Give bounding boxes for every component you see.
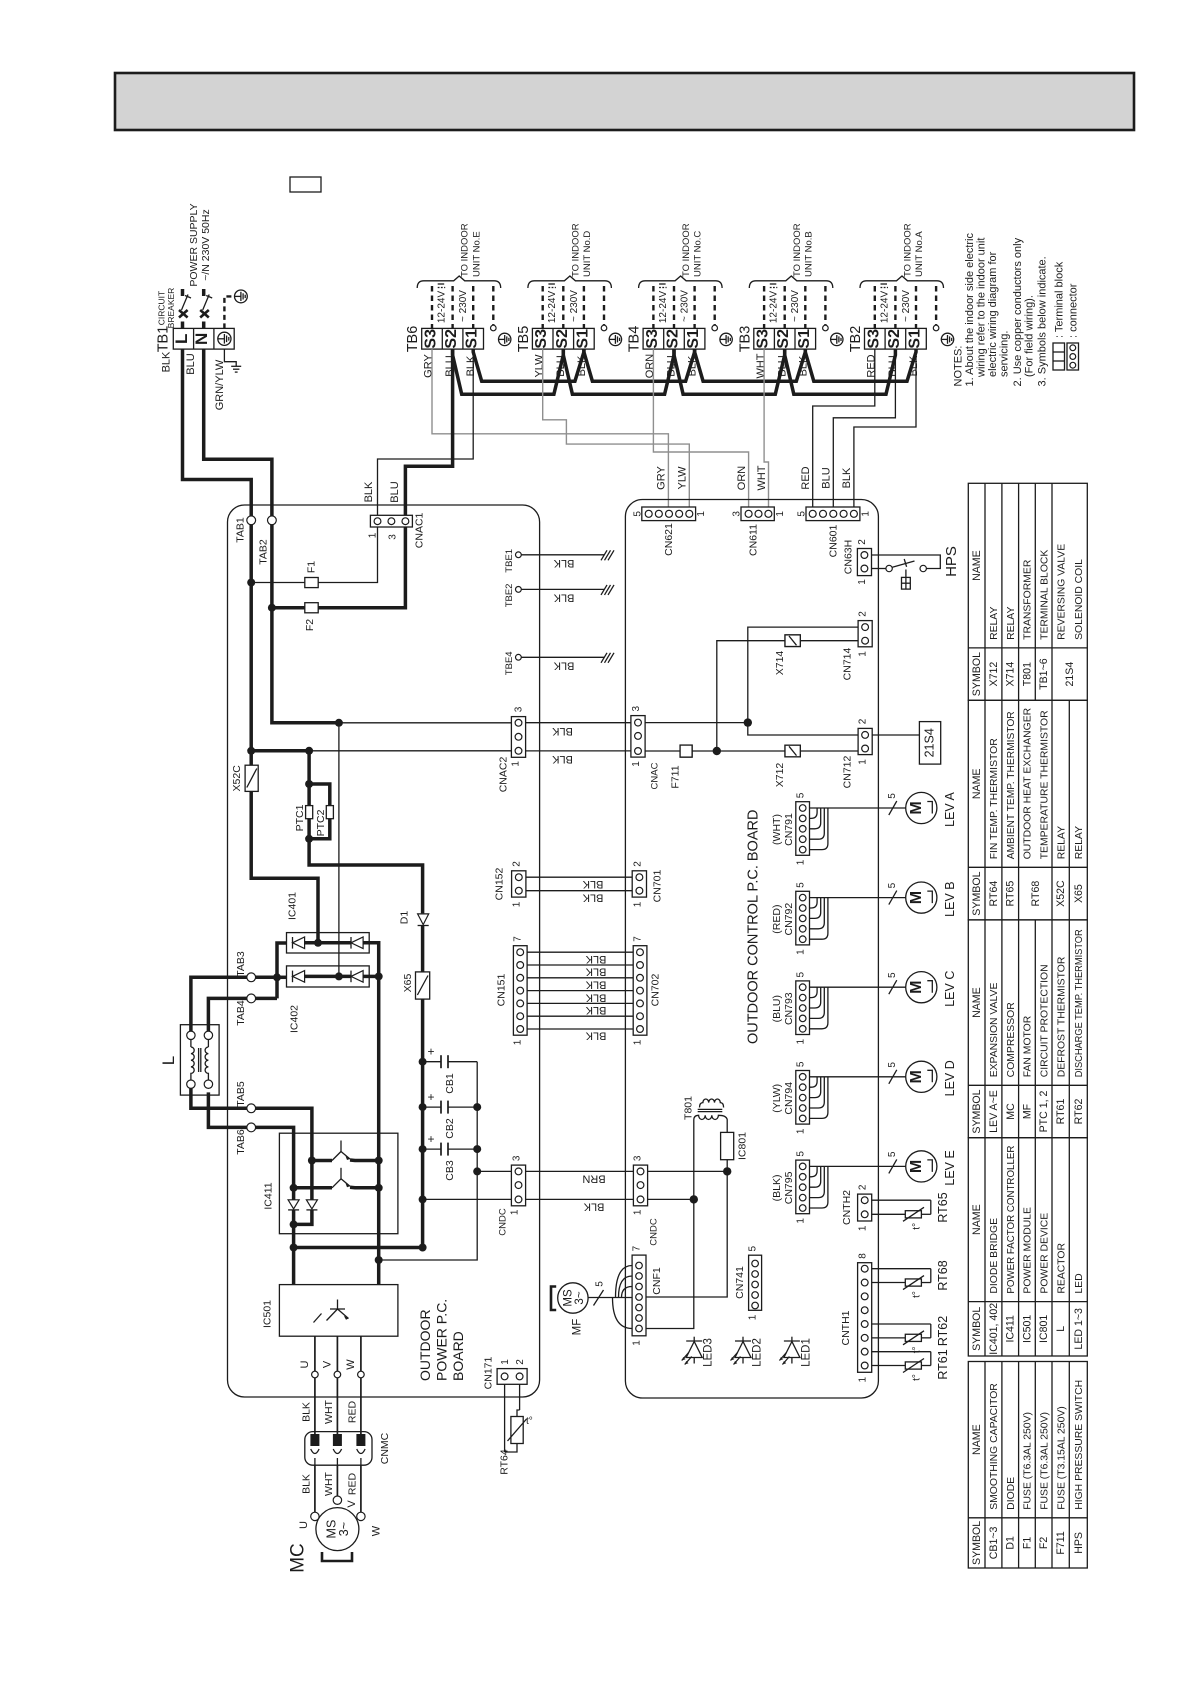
svg-text:~ 230V: ~ 230V — [901, 290, 912, 322]
circuit breaker L pole — [181, 289, 185, 328]
svg-text:BLU: BLU — [821, 467, 833, 488]
svg-text:servicing.: servicing. — [999, 331, 1011, 377]
svg-text:BLK: BLK — [585, 991, 606, 1003]
svg-text:NAME: NAME — [971, 1424, 983, 1455]
net CNAC pin1 / F711 / X712 — [645, 750, 680, 752]
svg-text:(YLW): (YLW) — [771, 1084, 783, 1113]
thermistor RT62 — [872, 1323, 931, 1325]
svg-text:BLK: BLK — [553, 659, 574, 671]
svg-text:NAME: NAME — [971, 987, 983, 1018]
svg-text:T801: T801 — [1021, 662, 1033, 686]
svg-text:CN714: CN714 — [842, 647, 854, 680]
table group 5 — [968, 1362, 1087, 1569]
svg-text:S1: S1 — [796, 329, 813, 349]
table group 4 — [968, 1138, 1087, 1356]
svg-text:1: 1 — [796, 859, 807, 865]
connector CN794 / motor LEV D — [796, 1071, 810, 1125]
svg-text:5: 5 — [887, 882, 898, 888]
svg-text:FUSE (T6.3AL 250V): FUSE (T6.3AL 250V) — [1023, 1412, 1034, 1510]
power module IC501 — [279, 1285, 398, 1337]
svg-text:RT64: RT64 — [988, 881, 1000, 907]
svg-text:21S4: 21S4 — [923, 728, 937, 757]
svg-text:5: 5 — [748, 1245, 759, 1251]
svg-text:NAME: NAME — [971, 768, 983, 799]
circled earth right of TB3 — [831, 333, 843, 345]
svg-text:WHT: WHT — [323, 1399, 335, 1423]
svg-text:2: 2 — [858, 718, 869, 724]
svg-text:TAB3: TAB3 — [235, 951, 247, 977]
svg-text:TBE4: TBE4 — [504, 651, 515, 675]
svg-text:1: 1 — [510, 1209, 521, 1215]
svg-text:BLK: BLK — [582, 878, 603, 890]
svg-text:UNIT No.C: UNIT No.C — [693, 231, 704, 277]
wire RED TB2.S3 to CN601 — [813, 349, 875, 507]
svg-text:MS: MS — [563, 1289, 575, 1307]
svg-text:LED 1~3: LED 1~3 — [1073, 1308, 1085, 1350]
diode bridge IC401 — [287, 933, 370, 953]
svg-text:S2: S2 — [554, 329, 571, 349]
svg-text:X65: X65 — [402, 974, 414, 993]
table group 1 — [968, 483, 1087, 700]
svg-text:TAB6: TAB6 — [235, 1129, 247, 1155]
svg-text:1: 1 — [633, 1209, 644, 1215]
svg-text:IC411: IC411 — [1005, 1315, 1017, 1343]
svg-text:S3: S3 — [644, 329, 661, 349]
svg-text:TB3: TB3 — [737, 326, 753, 353]
svg-text:TB2: TB2 — [848, 326, 864, 353]
transformer T801 — [694, 1099, 727, 1199]
wire CNAC2 pin1 — [251, 749, 309, 753]
svg-text:5: 5 — [887, 1062, 898, 1068]
svg-text:CB1~3: CB1~3 — [988, 1526, 1000, 1559]
svg-text:S1: S1 — [907, 329, 924, 349]
svg-text:TO INDOOR: TO INDOOR — [903, 223, 914, 277]
svg-text:CN792: CN792 — [783, 903, 795, 936]
connector CN741 — [749, 1255, 762, 1310]
table group 3 — [968, 920, 1087, 1138]
svg-text:CNTH1: CNTH1 — [840, 1310, 852, 1345]
svg-text:L: L — [159, 1056, 178, 1065]
BRN net into board — [648, 1170, 728, 1172]
svg-text:CN702: CN702 — [650, 973, 662, 1006]
connector CNAC control — [631, 716, 645, 758]
svg-text:: Terminal block: : Terminal block — [1054, 261, 1066, 338]
svg-text:2: 2 — [858, 1184, 869, 1190]
svg-text:N: N — [192, 333, 211, 345]
svg-text:RT68: RT68 — [1030, 881, 1042, 907]
svg-text:TO INDOOR: TO INDOOR — [570, 223, 581, 277]
earth tab TBE2 — [516, 587, 522, 593]
svg-text:3: 3 — [512, 1155, 523, 1161]
svg-text:1: 1 — [858, 759, 869, 765]
svg-text:BLK: BLK — [551, 753, 572, 765]
svg-text:WHT: WHT — [756, 465, 768, 490]
svg-text:ORN: ORN — [736, 466, 748, 491]
bracket over TB3 — [749, 276, 833, 288]
connector CNTH1 — [858, 1263, 872, 1373]
negative rail to IC501 — [292, 1224, 296, 1284]
svg-text:POWER P.C.: POWER P.C. — [434, 1299, 450, 1381]
svg-text:3~: 3~ — [574, 1291, 586, 1304]
svg-text:FUSE (T6.3AL 250V): FUSE (T6.3AL 250V) — [1039, 1412, 1050, 1510]
MF wires to CNF1 — [588, 1297, 632, 1299]
compressor motor MC — [314, 1465, 316, 1512]
svg-text:t°: t° — [526, 1416, 533, 1427]
svg-text:L: L — [1055, 1326, 1067, 1332]
bracket over TB4 — [639, 276, 723, 288]
svg-text:X714: X714 — [1005, 662, 1017, 687]
svg-text:1: 1 — [512, 901, 523, 907]
svg-text:CIRCUIT: CIRCUIT — [157, 291, 167, 325]
svg-text:CB1: CB1 — [444, 1073, 456, 1094]
svg-text:UNIT No.B: UNIT No.B — [803, 231, 814, 277]
svg-text:LEV E: LEV E — [943, 1150, 957, 1185]
connector CN791 / motor LEV A — [796, 802, 810, 856]
svg-text:CNF1: CNF1 — [651, 1267, 663, 1295]
earth tab TBE1 — [516, 552, 522, 558]
bracket over TB2 — [860, 276, 944, 288]
thermistor RT64 — [504, 1384, 506, 1452]
svg-text:RELAY: RELAY — [1056, 826, 1067, 859]
svg-text:TERMINAL BLOCK: TERMINAL BLOCK — [1039, 550, 1050, 640]
thermistor RT68 — [872, 1268, 931, 1270]
svg-text:SYMBOL: SYMBOL — [971, 1307, 983, 1351]
wire TAB2 rail to CNAC2 pin3 — [272, 525, 339, 723]
bracket over TB6 — [417, 276, 501, 288]
svg-text:BLK: BLK — [585, 1004, 606, 1016]
svg-text:21S4: 21S4 — [1064, 662, 1076, 687]
svg-text:BLK: BLK — [551, 725, 572, 737]
connector legend glyph — [1067, 343, 1079, 370]
power device IC801 — [721, 1132, 734, 1159]
high pressure switch HPS — [872, 555, 941, 569]
dashed field wiring above TB4 — [653, 286, 714, 328]
svg-text:S1: S1 — [464, 329, 481, 349]
wire BLK TB2.S1 to CN601 — [854, 349, 916, 507]
svg-text:F1: F1 — [306, 561, 318, 573]
svg-text:YLW: YLW — [677, 466, 689, 490]
svg-text:TB6: TB6 — [405, 326, 421, 353]
boost diode left (TAB6 rail) — [288, 1200, 299, 1209]
svg-text:S1: S1 — [685, 329, 702, 349]
svg-text:LED2: LED2 — [752, 1338, 764, 1367]
wire L to TAB5 — [191, 1088, 312, 1160]
svg-text:D1: D1 — [399, 911, 411, 925]
svg-text:RT64: RT64 — [499, 1449, 511, 1475]
svg-text:+: + — [427, 1045, 434, 1059]
svg-text:X52C: X52C — [231, 765, 243, 792]
terminal block TB2 — [848, 326, 926, 353]
svg-text:TBE2: TBE2 — [504, 584, 515, 608]
svg-text:+: + — [427, 1132, 434, 1146]
svg-text:BLK: BLK — [585, 966, 606, 978]
svg-text:FAN MOTOR: FAN MOTOR — [1023, 1015, 1034, 1077]
svg-text:3: 3 — [732, 511, 743, 517]
svg-text:SYMBOL: SYMBOL — [971, 1089, 983, 1133]
outdoor power board outline — [228, 505, 540, 1397]
svg-text:1: 1 — [748, 1314, 759, 1320]
svg-text:3: 3 — [631, 705, 642, 711]
svg-text:BLK: BLK — [161, 351, 173, 372]
wire TAB4 row — [208, 998, 277, 1035]
svg-text:CN795: CN795 — [783, 1171, 795, 1204]
svg-text:T801: T801 — [683, 1096, 695, 1120]
svg-text:RT62: RT62 — [936, 1316, 950, 1346]
svg-text:5: 5 — [633, 511, 644, 517]
svg-text:3: 3 — [388, 534, 399, 540]
svg-text:7: 7 — [633, 936, 644, 942]
svg-text:BREAKER: BREAKER — [166, 288, 176, 329]
svg-text:W: W — [371, 1525, 383, 1536]
svg-text:W: W — [345, 1359, 357, 1370]
jumper X712 — [785, 745, 800, 757]
svg-text:5: 5 — [796, 971, 807, 977]
svg-text:UNIT No.E: UNIT No.E — [471, 231, 482, 277]
thin wire CNAC2 net down to IC402 center — [338, 723, 340, 977]
svg-text:CNMC: CNMC — [379, 1432, 391, 1464]
svg-text:EXPANSION VALVE: EXPANSION VALVE — [989, 983, 1000, 1078]
wire BRN — [526, 1170, 634, 1172]
svg-text:BLK: BLK — [553, 591, 574, 603]
svg-text:RT68: RT68 — [936, 1260, 950, 1290]
svg-text:TB1~6: TB1~6 — [1038, 658, 1050, 690]
svg-text:HPS: HPS — [943, 546, 960, 577]
svg-text:CNDC: CNDC — [498, 1208, 509, 1236]
svg-text:BLK: BLK — [363, 481, 375, 502]
svg-text:CNTH2: CNTH2 — [841, 1190, 853, 1225]
net CNAC pin3 / CN714 — [645, 722, 748, 724]
svg-text:V: V — [322, 1360, 334, 1368]
svg-text:1: 1 — [511, 761, 522, 767]
svg-text:5: 5 — [797, 511, 808, 517]
svg-text:F711: F711 — [1055, 1531, 1067, 1554]
connector CN712 — [858, 728, 872, 754]
svg-text:LED1: LED1 — [800, 1338, 812, 1367]
CNMC connector — [305, 1432, 372, 1466]
small legend box — [290, 177, 321, 192]
svg-text:D1: D1 — [1005, 1536, 1017, 1550]
svg-text:wiring refer to the indoor uni: wiring refer to the indoor unit — [976, 238, 988, 378]
connector CN63H — [857, 549, 871, 576]
svg-text:BLK: BLK — [300, 1402, 312, 1422]
X714 branch wire — [717, 641, 858, 751]
relay X52C — [245, 765, 258, 791]
connector CN793 / motor LEV C — [796, 981, 810, 1035]
U V W outputs — [314, 1336, 316, 1371]
svg-text:CN791: CN791 — [783, 813, 795, 846]
svg-text:NAME: NAME — [971, 1204, 983, 1235]
svg-text:BLU: BLU — [185, 353, 197, 374]
svg-text:REVERSING VALVE: REVERSING VALVE — [1057, 544, 1068, 640]
svg-text:CB3: CB3 — [444, 1160, 456, 1181]
svg-text:12-24V: 12-24V — [547, 291, 558, 324]
svg-text:BLK: BLK — [585, 953, 606, 965]
svg-text:LED: LED — [1074, 1273, 1085, 1293]
svg-text:AMBIENT TEMP. THERMISTOR: AMBIENT TEMP. THERMISTOR — [1006, 711, 1017, 859]
svg-text:5: 5 — [796, 1061, 807, 1067]
svg-text:LEV D: LEV D — [943, 1060, 957, 1096]
svg-text:FUSE (T3.15AL 250V): FUSE (T3.15AL 250V) — [1056, 1406, 1067, 1510]
svg-text:X65: X65 — [1073, 884, 1085, 903]
wire CNAC2 to CNAC pin3 — [526, 722, 631, 724]
svg-text:1: 1 — [696, 511, 707, 517]
svg-text:LEV A~E: LEV A~E — [988, 1090, 1000, 1133]
thermistor RT61 — [872, 1351, 931, 1353]
wire TB1 L to TAB1 — [183, 349, 252, 516]
svg-text:RT65: RT65 — [936, 1192, 950, 1222]
connector CN171 — [497, 1369, 527, 1385]
svg-text:MC: MC — [1005, 1103, 1017, 1120]
wire BLK — [526, 1198, 634, 1200]
connector CNTH2 — [858, 1194, 872, 1221]
svg-text:1: 1 — [858, 1376, 869, 1382]
indicator LED3 — [682, 1337, 703, 1365]
connector CN601 — [806, 507, 860, 521]
svg-text:TO INDOOR: TO INDOOR — [792, 223, 803, 277]
svg-text:IC801: IC801 — [737, 1132, 749, 1160]
jumper X714 (overlay) — [785, 635, 800, 647]
svg-text:NAME: NAME — [971, 550, 983, 581]
svg-text:X712: X712 — [774, 763, 786, 788]
svg-text:RED: RED — [346, 1472, 358, 1495]
positive rail to IC501 — [377, 1188, 381, 1285]
svg-text:3: 3 — [514, 706, 525, 712]
terminal block TB1 — [156, 326, 235, 353]
svg-text:BRN: BRN — [582, 1173, 605, 1185]
svg-text:2. Use copper conductors only: 2. Use copper conductors only — [1012, 237, 1024, 386]
svg-text:1: 1 — [796, 1038, 807, 1044]
svg-text:~ 230V: ~ 230V — [680, 290, 691, 322]
svg-text:TAB2: TAB2 — [258, 539, 270, 565]
connector CN621 — [642, 507, 696, 521]
svg-text:RED: RED — [346, 1400, 358, 1423]
svg-text:POWER DEVICE: POWER DEVICE — [1039, 1213, 1050, 1294]
svg-text:TB1: TB1 — [156, 326, 172, 353]
bus S1 TB5-TB4 — [584, 349, 695, 381]
wire TAB1 rail — [249, 525, 253, 766]
svg-text:TAB4: TAB4 — [235, 1000, 247, 1026]
svg-text:MC: MC — [287, 1543, 308, 1573]
wires CN152-CN701 — [526, 876, 632, 878]
svg-text:1: 1 — [796, 1128, 807, 1134]
svg-text:BLU: BLU — [389, 481, 401, 502]
svg-text:5: 5 — [796, 882, 807, 888]
svg-text:S1: S1 — [574, 329, 591, 349]
svg-text:BOARD: BOARD — [450, 1331, 466, 1381]
terminal block TB4 — [627, 326, 705, 353]
svg-text:LEV C: LEV C — [943, 971, 957, 1007]
reactor L — [180, 1025, 219, 1095]
svg-text:YLW: YLW — [533, 354, 545, 378]
svg-text:SYMBOL: SYMBOL — [971, 1521, 983, 1565]
tab terminal TAB2 — [268, 516, 277, 525]
svg-text:CNAC: CNAC — [650, 762, 661, 789]
svg-text:5: 5 — [887, 793, 898, 799]
svg-text:MF: MF — [572, 1319, 584, 1336]
svg-text:t°: t° — [912, 1223, 923, 1230]
dashed field wiring above TB5 — [543, 286, 604, 328]
svg-text:ORN: ORN — [644, 354, 656, 379]
svg-text:L: L — [172, 334, 191, 344]
svg-text:TAB1: TAB1 — [235, 517, 247, 543]
circled earth symbol top — [235, 290, 248, 303]
svg-text:OUTDOOR HEAT EXCHANGER: OUTDOOR HEAT EXCHANGER — [1023, 707, 1034, 859]
svg-text:RT61: RT61 — [936, 1349, 950, 1379]
svg-text:F2: F2 — [304, 619, 316, 631]
svg-text:SOLENOID COIL: SOLENOID COIL — [1074, 559, 1085, 640]
svg-text:X714: X714 — [774, 651, 786, 676]
IC801 junction down to CNF1 pin4 — [646, 1171, 727, 1297]
bridge row internal wires — [305, 941, 351, 945]
svg-text:PTC2: PTC2 — [315, 809, 327, 836]
svg-text:COMPRESSOR: COMPRESSOR — [1006, 1002, 1017, 1078]
circled earth right of TB2 — [941, 333, 953, 345]
bus S2 TB6-TB5 — [453, 349, 564, 394]
capacitor CB1 — [423, 1061, 441, 1063]
svg-text:CN701: CN701 — [652, 869, 664, 902]
svg-text:2: 2 — [858, 611, 869, 617]
svg-text:3: 3 — [633, 1155, 644, 1161]
svg-text:TO INDOOR: TO INDOOR — [681, 223, 692, 277]
solenoid 21S4 — [872, 734, 920, 736]
fuse F1 — [251, 582, 305, 584]
svg-text:LEV B: LEV B — [943, 881, 957, 916]
svg-text:S3: S3 — [755, 329, 772, 349]
svg-text:M: M — [908, 801, 925, 814]
svg-text:TEMPERATURE THERMISTOR: TEMPERATURE THERMISTOR — [1039, 710, 1050, 859]
svg-text:BLK: BLK — [585, 979, 606, 991]
svg-text:IC411: IC411 — [263, 1182, 275, 1209]
terminal block TB6 — [405, 326, 483, 353]
svg-text:~/N 230V 50Hz: ~/N 230V 50Hz — [200, 209, 212, 281]
connector CNDC power side — [511, 1165, 525, 1206]
svg-text:PTC1: PTC1 — [294, 804, 306, 831]
wire BLU TB6.S2 to CNAC1 — [405, 349, 452, 515]
svg-text:: connector: : connector — [1068, 283, 1080, 338]
svg-text:SYMBOL: SYMBOL — [971, 652, 983, 696]
svg-text:F2: F2 — [1038, 1537, 1050, 1549]
wires CN151-CN702 — [527, 951, 633, 953]
svg-text:1: 1 — [858, 1225, 869, 1231]
svg-text:CIRCUIT PROTECTION: CIRCUIT PROTECTION — [1039, 964, 1050, 1077]
svg-text:F1: F1 — [1021, 1537, 1033, 1549]
svg-text:3. Symbols below indicate.: 3. Symbols below indicate. — [1037, 256, 1049, 386]
svg-text:SYMBOL: SYMBOL — [971, 871, 983, 915]
svg-text:~ 230V: ~ 230V — [790, 290, 801, 322]
svg-text:CNAC2: CNAC2 — [497, 757, 509, 793]
connector CN152 — [512, 871, 526, 897]
svg-text:t°: t° — [912, 1374, 923, 1381]
svg-text:BLK: BLK — [585, 1030, 606, 1042]
svg-text:UNIT No.A: UNIT No.A — [914, 231, 925, 277]
PTC1 / PTC2 branch — [307, 751, 311, 806]
fuse F711 — [680, 745, 692, 757]
svg-text:~ 230V: ~ 230V — [569, 290, 580, 322]
svg-text:SMOOTHING CAPACITOR: SMOOTHING CAPACITOR — [989, 1383, 1000, 1510]
wire YLW TB5.S3 to CN621 — [543, 349, 690, 507]
svg-text:1: 1 — [632, 1340, 643, 1346]
svg-text:S2: S2 — [443, 329, 460, 349]
svg-text:F711: F711 — [670, 765, 682, 788]
svg-text:2: 2 — [633, 861, 644, 867]
connector CN714 — [858, 621, 872, 647]
svg-text:GRN/YLW: GRN/YLW — [214, 359, 226, 410]
svg-text:M: M — [908, 1160, 925, 1173]
svg-text:U: U — [298, 1521, 310, 1529]
svg-text:8: 8 — [858, 1253, 869, 1259]
svg-text:BLK: BLK — [553, 557, 574, 569]
tab terminal TAB1 — [247, 516, 256, 525]
